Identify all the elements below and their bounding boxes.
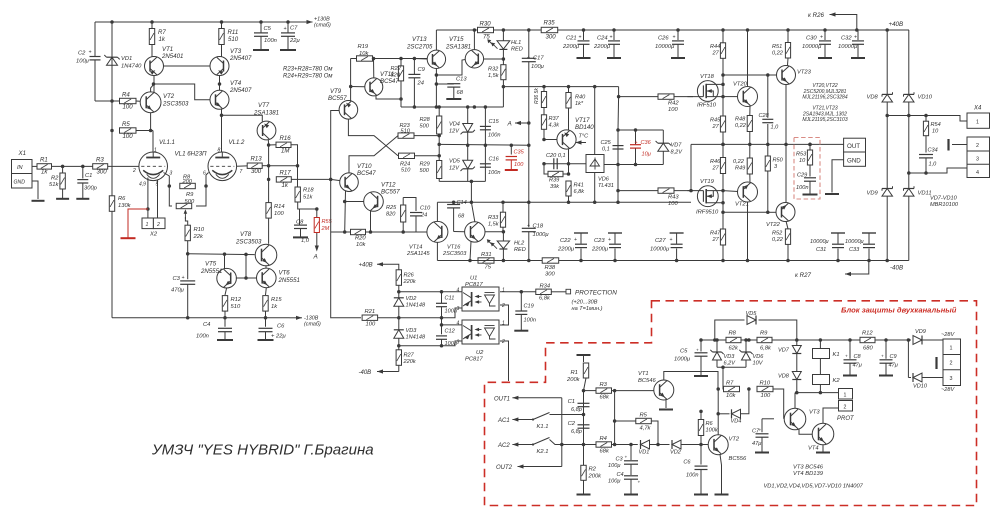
svg-text:R5: R5 <box>122 121 130 128</box>
wire row346 <box>399 341 462 346</box>
rail-40 dot vt21 <box>746 259 750 263</box>
svg-text:200k: 200k <box>588 474 603 480</box>
arrow to R27 <box>845 261 869 277</box>
wire row325 <box>442 324 463 326</box>
capacitor C32 <box>838 30 864 57</box>
svg-text:2N5401: 2N5401 <box>161 53 183 60</box>
svg-text:1,0: 1,0 <box>771 125 780 131</box>
svg-text:12V: 12V <box>449 129 460 135</box>
node VT15 base tap <box>435 73 439 77</box>
node R1 bot <box>582 389 586 393</box>
ground C6 <box>258 339 274 341</box>
svg-text:10: 10 <box>932 129 939 135</box>
svg-text:680: 680 <box>863 346 873 352</box>
svg-text:C2: C2 <box>78 51 86 57</box>
svg-text:100: 100 <box>514 162 524 168</box>
ladder dot c top <box>484 105 488 109</box>
rail dot R7 <box>150 20 154 24</box>
wire VT10 emit <box>344 191 347 232</box>
zener VD7 <box>656 130 684 165</box>
note R23R28 <box>283 67 332 80</box>
wire VT16 base tie <box>485 231 504 233</box>
svg-text:2200μ: 2200μ <box>593 44 611 50</box>
svg-text:6,2V: 6,2V <box>724 361 737 367</box>
wire VT10col-R23 <box>349 136 398 173</box>
ground VT2p <box>715 494 729 496</box>
wire fb down <box>331 232 361 318</box>
svg-text:VD4: VD4 <box>449 122 460 128</box>
rail dot VD1 <box>110 20 114 24</box>
wire prot row <box>795 392 839 394</box>
svg-text:R1: R1 <box>571 370 578 376</box>
transistor VT3p <box>784 408 820 430</box>
svg-text:R53: R53 <box>796 152 807 158</box>
prow dot c5 <box>699 338 703 342</box>
svg-text:24: 24 <box>420 213 427 219</box>
capacitor C9p <box>880 340 898 375</box>
svg-text:(стаб): (стаб) <box>304 322 321 328</box>
node VT16b-HL2 <box>502 230 506 234</box>
transistor VT2 <box>140 92 189 113</box>
wire vt4 emit <box>822 445 824 452</box>
node R22 top <box>399 57 403 61</box>
rail30 dot C17 <box>527 28 531 32</box>
svg-text:R33: R33 <box>488 215 499 221</box>
svg-text:47μ: 47μ <box>752 441 761 447</box>
wire VT12 base <box>345 201 364 203</box>
svg-text:2SC3503: 2SC3503 <box>235 239 262 246</box>
diode VD8p <box>778 372 801 380</box>
svg-text:C11: C11 <box>445 296 455 302</box>
resistor R7p <box>724 381 740 400</box>
prow dot vd3 <box>715 338 719 342</box>
svg-text:300: 300 <box>251 168 262 175</box>
svg-text:R52: R52 <box>772 231 783 237</box>
svg-text:C29: C29 <box>797 173 807 179</box>
svg-text:R36 5k: R36 5k <box>534 88 540 104</box>
svg-text:R46: R46 <box>710 159 721 165</box>
svg-text:VT3: VT3 <box>230 48 242 55</box>
svg-text:R1: R1 <box>40 157 48 164</box>
resistor R50 <box>765 144 783 212</box>
svg-text:C3: C3 <box>616 457 624 463</box>
svg-text:HL2: HL2 <box>514 241 525 247</box>
wire R49 up <box>749 144 751 158</box>
svg-text:+130В: +130В <box>314 17 330 23</box>
svg-text:VT6: VT6 <box>279 270 291 277</box>
capacitor C34 <box>919 148 938 174</box>
node prot k2 <box>819 391 823 395</box>
cluster top dot <box>616 128 620 132</box>
svg-text:+: + <box>89 50 92 56</box>
wire VT22 col <box>786 221 788 229</box>
ground C7p <box>755 452 769 454</box>
wire VT21 col <box>747 202 749 261</box>
svg-text:VT12: VT12 <box>381 182 396 189</box>
svg-text:2SA1381: 2SA1381 <box>445 44 471 51</box>
svg-text:100k: 100k <box>706 428 719 434</box>
rail30 dot VT15 <box>473 28 477 32</box>
col723 dot s18 <box>721 83 725 87</box>
wire R14-VT8 <box>268 218 270 244</box>
rail-40 dot c23 <box>613 259 617 263</box>
svg-text:(стаб): (стаб) <box>314 23 331 29</box>
cluster bot dot <box>616 163 620 167</box>
svg-text:1k: 1k <box>41 169 48 176</box>
wire VT11 col <box>373 59 375 79</box>
svg-text:OUT: OUT <box>847 143 860 150</box>
capacitor C9 <box>408 59 425 108</box>
svg-text:820: 820 <box>391 73 401 79</box>
svg-text:R30: R30 <box>480 21 492 28</box>
diode VD7p <box>778 346 801 354</box>
cluster top dot2 <box>634 128 638 132</box>
transistor VT8 <box>235 231 277 266</box>
prow dot vd10 <box>907 338 911 342</box>
prow dot vd6 <box>744 338 748 342</box>
rail-40 dot hl2 <box>502 259 506 263</box>
svg-text:VD5: VD5 <box>449 159 461 165</box>
rail dot R12 <box>223 316 227 320</box>
svg-text:-40В: -40В <box>890 265 903 272</box>
wire VT13 base <box>414 58 427 61</box>
node R8 left <box>168 184 172 188</box>
transistor VT11 <box>365 71 399 96</box>
resistor R17 <box>276 170 291 189</box>
svg-text:2N5407: 2N5407 <box>229 87 252 94</box>
resistor R11 <box>219 22 239 57</box>
node C19 <box>520 290 524 294</box>
row202 dot TL <box>593 201 597 205</box>
svg-text:-40В: -40В <box>359 370 372 376</box>
node C12 top <box>440 323 444 327</box>
node VT17 base <box>542 138 546 142</box>
svg-text:TL431: TL431 <box>598 183 614 189</box>
wire k2-row <box>819 385 821 393</box>
svg-text:27: 27 <box>712 166 720 172</box>
svg-text:Блок защиты двухканальный: Блок защиты двухканальный <box>841 306 957 315</box>
svg-text:7: 7 <box>240 169 243 175</box>
wire x618 vert3 <box>617 130 619 202</box>
svg-text:R35: R35 <box>544 20 556 27</box>
label +40V <box>889 21 904 28</box>
resistor R44 <box>710 43 726 59</box>
svg-text:39k: 39k <box>550 184 560 190</box>
wire rail107 <box>401 106 503 108</box>
svg-text:+: + <box>579 35 582 41</box>
svg-text:1k: 1k <box>282 182 289 189</box>
transistor VT22 <box>766 203 795 229</box>
node C1 junction <box>81 165 85 169</box>
svg-text:R22: R22 <box>391 66 402 72</box>
svg-text:300p: 300p <box>84 186 98 192</box>
prow dot c8 <box>848 338 852 342</box>
red ground X2 <box>121 237 136 239</box>
svg-text:1k*: 1k* <box>575 101 584 107</box>
svg-text:500: 500 <box>420 168 430 174</box>
transistor VT12 <box>364 182 401 212</box>
ground C8p <box>843 375 857 377</box>
svg-text:2: 2 <box>501 339 505 345</box>
label -130V <box>304 316 321 328</box>
svg-text:100: 100 <box>366 322 376 328</box>
node VT5 col <box>223 252 227 256</box>
row202 dot C18 <box>527 201 531 205</box>
wire R1-C1 node <box>52 165 93 167</box>
wire VT12 emit <box>370 211 372 232</box>
node row346 <box>397 344 401 348</box>
svg-text:PROTECTION: PROTECTION <box>575 290 617 297</box>
svg-text:27: 27 <box>712 51 720 57</box>
svg-text:R41: R41 <box>574 183 584 189</box>
svg-text:1,0: 1,0 <box>929 162 938 168</box>
svg-text:R6: R6 <box>706 421 714 427</box>
wire c3 col <box>630 445 632 461</box>
resistor R2 <box>49 166 65 198</box>
svg-text:22k: 22k <box>193 234 204 240</box>
svg-text:к R27: к R27 <box>795 272 812 279</box>
wire R10 down <box>187 241 189 254</box>
svg-text:VD3: VD3 <box>724 354 736 360</box>
wire VT21 base <box>723 190 738 193</box>
svg-text:U2: U2 <box>476 350 484 356</box>
svg-text:1,0: 1,0 <box>301 238 310 244</box>
svg-text:VD7: VD7 <box>778 348 790 354</box>
wire row292 <box>399 291 462 293</box>
svg-text:R39: R39 <box>549 178 559 184</box>
node r7 r10 <box>747 387 751 391</box>
capacitor C1 <box>77 166 97 198</box>
svg-text:2: 2 <box>950 361 953 367</box>
svg-text:PC817: PC817 <box>465 282 484 288</box>
wire prow340 <box>701 339 908 341</box>
svg-text:R10: R10 <box>194 227 205 233</box>
note VT20 types <box>802 83 847 101</box>
svg-text:C28: C28 <box>759 113 770 119</box>
resistor R12p <box>860 331 875 352</box>
connector PROT <box>837 389 855 423</box>
transistor VT5 <box>200 261 236 289</box>
svg-text:2N5407: 2N5407 <box>229 55 252 62</box>
node R2 junction <box>61 165 65 169</box>
svg-text:10k: 10k <box>359 51 369 57</box>
svg-text:VD2: VD2 <box>670 450 682 456</box>
svg-text:R32: R32 <box>488 67 499 73</box>
capacitor C8 <box>294 220 310 245</box>
node C13 tap <box>435 82 439 86</box>
wire VT5 col <box>224 254 226 269</box>
svg-text:3: 3 <box>457 306 460 312</box>
svg-text:R9: R9 <box>186 192 194 198</box>
ground C30 <box>818 57 832 59</box>
svg-text:VT2: VT2 <box>729 437 740 443</box>
svg-text:R16: R16 <box>280 135 292 142</box>
wire bias row86 <box>503 86 618 88</box>
bar X5 <box>935 357 937 369</box>
svg-text:AC2: AC2 <box>497 443 510 449</box>
node R10 bottom <box>186 252 190 256</box>
wire GND box <box>832 160 844 193</box>
svg-text:100: 100 <box>274 211 284 217</box>
svg-text:100n: 100n <box>524 318 536 324</box>
svg-text:C5: C5 <box>680 349 688 355</box>
resistor R13 <box>247 156 262 176</box>
relay K1 <box>813 340 840 359</box>
wire C20 row <box>544 163 587 165</box>
svg-text:U1: U1 <box>470 276 477 282</box>
svg-text:C7: C7 <box>290 26 298 32</box>
svg-text:6,8k: 6,8k <box>760 346 772 352</box>
rail-40 dot c31 <box>836 259 840 263</box>
wire C8 stem <box>299 209 301 225</box>
wire VT1 col <box>153 76 155 93</box>
node c6 top <box>699 443 703 447</box>
svg-text:R9: R9 <box>760 331 768 337</box>
svg-text:C32: C32 <box>841 36 852 42</box>
rail115 dot2 <box>907 114 911 118</box>
svg-text:+: + <box>638 480 641 485</box>
label -40V <box>890 265 903 272</box>
svg-text:300: 300 <box>545 272 555 278</box>
resistor R25 <box>386 198 406 233</box>
wire midrow left <box>439 143 529 146</box>
resistor R8 <box>180 175 196 189</box>
wire col723 <box>722 30 724 261</box>
svg-text:4,9: 4,9 <box>139 182 146 188</box>
ground C13 <box>446 98 461 100</box>
transistor VT15 <box>445 36 484 68</box>
wire r10-vt3 <box>773 389 784 419</box>
wire c4-gnd <box>630 479 632 494</box>
col723 dot vt20b <box>721 95 725 99</box>
svg-text:1000μ: 1000μ <box>674 357 691 363</box>
wire c7-vt3base <box>762 418 774 420</box>
node R16R13 vert <box>296 164 300 168</box>
arrow -130V <box>290 316 303 320</box>
capacitor C27 <box>650 233 684 261</box>
svg-text:10V: 10V <box>753 361 764 367</box>
prow dot vd5l <box>713 338 717 342</box>
connector X5 <box>943 339 961 386</box>
svg-text:3: 3 <box>976 157 979 163</box>
resistor R8p <box>726 331 741 352</box>
svg-text:+ 22μ: + 22μ <box>271 334 286 340</box>
ladder dot vd mid <box>466 143 470 147</box>
wire R26-VD2 <box>398 285 400 298</box>
node R55 top <box>315 207 319 211</box>
svg-text:C13: C13 <box>456 77 467 83</box>
node C20 left <box>542 162 546 166</box>
svg-text:+: + <box>845 354 848 359</box>
resistor R1p <box>566 363 589 383</box>
wire row202 left <box>437 201 529 203</box>
svg-text:0,22: 0,22 <box>772 237 784 243</box>
svg-text:R40: R40 <box>575 95 586 101</box>
svg-text:IRF9510: IRF9510 <box>696 210 719 216</box>
svg-text:1,5k: 1,5k <box>488 73 500 79</box>
svg-text:24: 24 <box>417 81 424 87</box>
svg-text:100: 100 <box>123 133 134 140</box>
wire c20-r41 <box>568 164 570 174</box>
rail-40 dot vd9 <box>885 259 889 263</box>
resistor R1 <box>37 157 52 176</box>
svg-text:2N5551: 2N5551 <box>200 268 222 275</box>
svg-text:R3: R3 <box>600 382 608 388</box>
wire base tie <box>245 254 247 278</box>
wire vt3 col <box>794 393 796 409</box>
node VT11 col <box>372 57 376 61</box>
label к R27 <box>795 272 812 279</box>
wire vd2-vt2 <box>681 444 709 446</box>
resistor R36 <box>534 87 547 115</box>
svg-text:VD5: VD5 <box>746 311 758 317</box>
wire R23-R28 <box>414 136 439 145</box>
wire R18-C8 <box>298 202 317 209</box>
svg-text:+: + <box>820 35 823 41</box>
resistor R31 <box>478 252 494 271</box>
svg-text:С35: С35 <box>514 150 525 156</box>
svg-text:R54: R54 <box>931 122 941 128</box>
svg-text:1: 1 <box>950 346 953 352</box>
wire vd10 col <box>908 30 910 261</box>
node VT12e-row <box>369 230 373 234</box>
mosfet VT19 <box>687 179 723 216</box>
svg-text:VT4: VT4 <box>808 446 819 452</box>
svg-text:C20 0,1: C20 0,1 <box>546 153 566 159</box>
capacitor C15 <box>480 119 501 139</box>
svg-text:1: 1 <box>502 288 505 294</box>
svg-text:OUT2: OUT2 <box>496 465 513 471</box>
svg-text:VD4: VD4 <box>731 419 742 425</box>
svg-text:VT10: VT10 <box>357 163 372 170</box>
wire R55 down <box>316 233 318 244</box>
svg-text:C33: C33 <box>849 247 860 253</box>
resistor R10 <box>185 225 205 241</box>
IC VD6 TL431 <box>586 87 614 189</box>
optocoupler U1 <box>457 276 506 313</box>
svg-text:10000μ: 10000μ <box>650 247 670 253</box>
svg-text:10k: 10k <box>726 393 736 399</box>
label OUT1 <box>494 397 510 403</box>
svg-text:R26: R26 <box>404 273 415 279</box>
arrow node A down <box>315 244 319 252</box>
node c1c2 <box>582 413 586 417</box>
node VT23 base <box>766 73 770 77</box>
wire x618 vert <box>618 87 620 97</box>
node row346 c12 <box>440 344 444 348</box>
ground R2 <box>56 198 69 200</box>
svg-text:R17: R17 <box>280 170 292 177</box>
svg-text:R12: R12 <box>231 297 242 303</box>
svg-text:4,3k: 4,3k <box>549 123 561 129</box>
svg-text:VD1: VD1 <box>639 450 650 456</box>
svg-text:C34: C34 <box>928 148 938 154</box>
svg-text:2: 2 <box>132 168 136 174</box>
node r4row c2 <box>582 443 586 447</box>
node A left <box>527 121 531 125</box>
svg-text:220k: 220k <box>403 279 417 285</box>
wire -130V rail <box>112 317 290 319</box>
cluster bot dot2 <box>634 163 638 167</box>
wire out1 vert <box>561 398 563 467</box>
node R33 top <box>501 201 505 205</box>
svg-text:4: 4 <box>457 288 460 294</box>
diode VD4p <box>718 409 741 424</box>
label -40V opto <box>359 370 372 376</box>
svg-text:+: + <box>284 26 287 32</box>
resistor R19 <box>357 44 373 61</box>
wire R6 down <box>111 211 113 318</box>
